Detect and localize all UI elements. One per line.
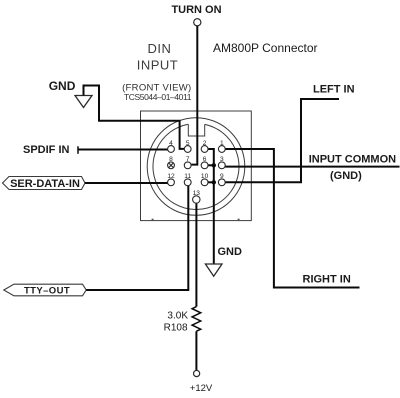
pin 11 bbox=[184, 179, 191, 186]
svg-text:8: 8 bbox=[169, 156, 173, 163]
junction pin6 gnd bbox=[212, 163, 216, 167]
connector box bbox=[141, 111, 252, 221]
svg-text:13: 13 bbox=[193, 190, 201, 197]
wire TURN ON to pin 7 bbox=[191, 26, 197, 165]
svg-text:SER-DATA-IN: SER-DATA-IN bbox=[10, 178, 80, 190]
resistor R108 bbox=[192, 307, 201, 332]
terminal circle TURN ON bbox=[194, 19, 201, 26]
connector keyway notch bbox=[188, 124, 204, 136]
svg-text:INPUT: INPUT bbox=[137, 58, 179, 73]
junction pin10 gnd bbox=[212, 180, 216, 184]
svg-text:6: 6 bbox=[203, 156, 207, 163]
wire TTY-OUT to pin 11 bbox=[86, 186, 188, 290]
svg-text:10: 10 bbox=[201, 173, 209, 180]
terminal circle +12V bbox=[194, 370, 200, 376]
ground symbol (top left) bbox=[75, 96, 92, 108]
svg-text:12: 12 bbox=[167, 173, 175, 180]
box mounting dot right bbox=[238, 219, 240, 221]
pin 1 bbox=[218, 146, 225, 153]
svg-text:+12V: +12V bbox=[190, 383, 213, 394]
wire SER-DATA-IN to pin 12 bbox=[85, 182, 168, 184]
pin 4 bbox=[168, 146, 175, 153]
svg-text:AM800P Connector: AM800P Connector bbox=[213, 41, 318, 55]
ground symbol (bottom) bbox=[205, 264, 222, 276]
wire pin 1 to RIGHT IN bbox=[225, 149, 359, 288]
pin 12 bbox=[168, 179, 175, 186]
pin 2 bbox=[201, 146, 208, 153]
svg-text:RIGHT IN: RIGHT IN bbox=[303, 274, 351, 286]
box mounting dot left bbox=[152, 219, 154, 221]
wire pin 3 INPUT COMMON bbox=[225, 166, 399, 168]
net flag SER-DATA-IN bbox=[3, 177, 86, 190]
wire pin 2 / pin 6 / pin 10 to ground bbox=[208, 149, 214, 264]
svg-text:7: 7 bbox=[186, 156, 190, 163]
pin 10 bbox=[201, 179, 208, 186]
svg-text:3: 3 bbox=[220, 156, 224, 163]
pin 9 bbox=[218, 179, 225, 186]
svg-text:11: 11 bbox=[184, 173, 191, 180]
svg-text:DIN: DIN bbox=[148, 41, 172, 56]
pin 13 bbox=[193, 196, 200, 203]
pin 6 bbox=[201, 162, 208, 169]
svg-text:GND: GND bbox=[49, 79, 76, 93]
svg-text:R108: R108 bbox=[164, 323, 188, 334]
svg-text:5: 5 bbox=[186, 140, 190, 147]
pin 7 bbox=[184, 162, 191, 169]
connector outer shell circle bbox=[147, 118, 245, 216]
svg-text:INPUT COMMON: INPUT COMMON bbox=[309, 153, 396, 165]
wire SPDIF IN to pin 4 bbox=[77, 146, 79, 154]
svg-text:TTY–OUT: TTY–OUT bbox=[24, 286, 70, 297]
svg-text:SPDIF IN: SPDIF IN bbox=[23, 144, 70, 156]
svg-text:LEFT IN: LEFT IN bbox=[313, 83, 355, 95]
svg-text:2: 2 bbox=[203, 140, 207, 147]
svg-text:3.0K: 3.0K bbox=[167, 311, 188, 322]
wire pin 13 to resistor bbox=[195, 203, 197, 307]
wire GND to pin 5 bbox=[84, 86, 185, 149]
svg-text:GND: GND bbox=[218, 246, 243, 258]
connector inner circle (gap at keyway) bbox=[153, 124, 239, 209]
svg-text:4: 4 bbox=[169, 140, 173, 147]
pin 8 (no connection, crossed) bbox=[168, 162, 175, 169]
svg-text:(GND): (GND) bbox=[330, 170, 362, 182]
svg-text:1: 1 bbox=[220, 140, 224, 147]
pin 5 bbox=[184, 146, 191, 153]
svg-text:TCS5044–01–4011: TCS5044–01–4011 bbox=[124, 92, 192, 102]
net flag TTY-OUT bbox=[4, 284, 86, 296]
pin 3 bbox=[218, 162, 225, 169]
svg-text:9: 9 bbox=[220, 173, 224, 180]
wire pin 9 to LEFT IN bbox=[225, 99, 339, 182]
svg-text:TURN ON: TURN ON bbox=[171, 4, 221, 16]
wire resistor to +12V bbox=[195, 331, 197, 370]
